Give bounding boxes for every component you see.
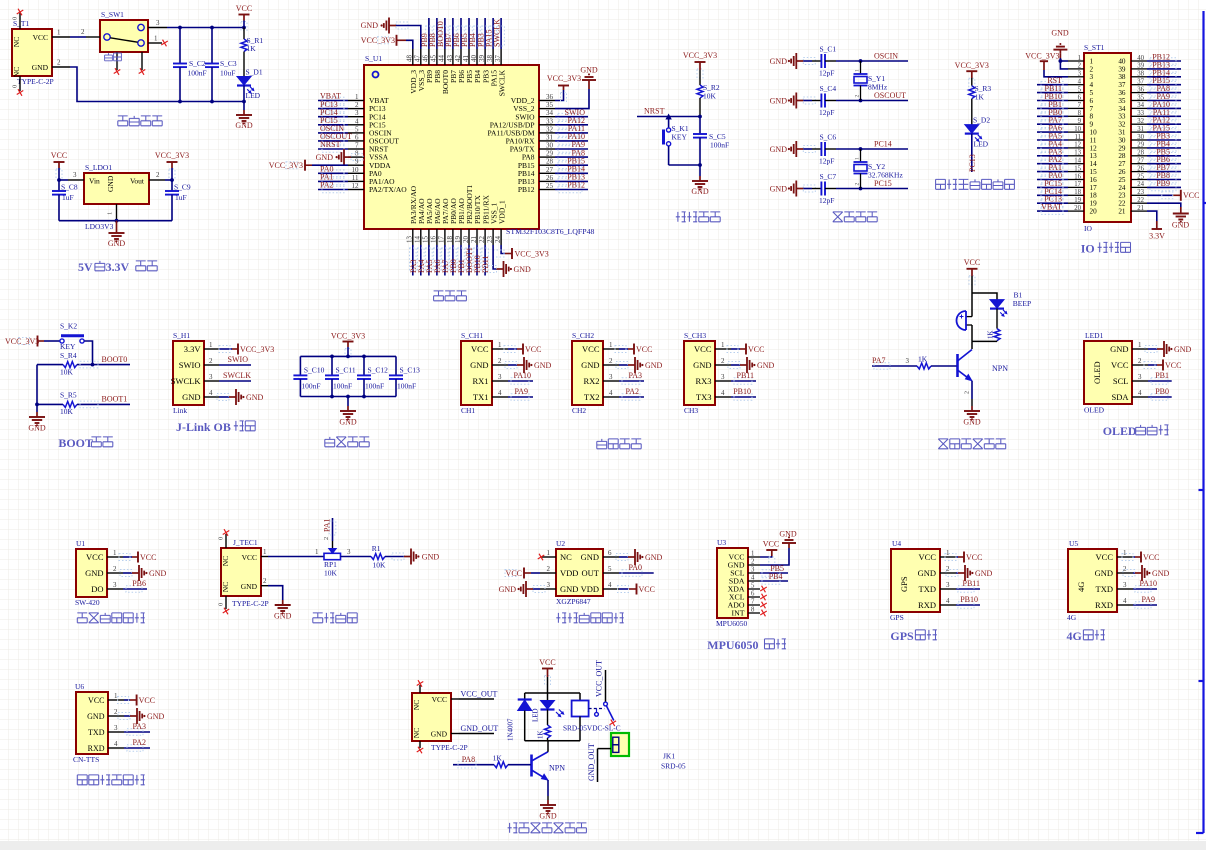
wire <box>1147 107 1181 109</box>
wire <box>972 293 997 300</box>
svg-text:10uF: 10uF <box>220 69 235 78</box>
svg-text:40: 40 <box>470 55 478 63</box>
ground at U1 pin2 <box>120 565 167 581</box>
ground <box>274 600 292 621</box>
svg-text:S_C12: S_C12 <box>368 366 389 375</box>
no-connect X J_TEC1 top <box>223 529 230 536</box>
svg-text:VCC: VCC <box>763 540 779 549</box>
svg-text:SWCLK: SWCLK <box>223 371 251 380</box>
svg-text:PC13: PC13 <box>968 154 977 172</box>
svg-text:10: 10 <box>352 166 360 174</box>
svg-text:25: 25 <box>546 182 554 190</box>
svg-text:25: 25 <box>1118 176 1126 184</box>
connector S_ST1 <box>1068 43 1147 233</box>
svg-text:20: 20 <box>1074 205 1081 212</box>
svg-text:27: 27 <box>1118 160 1126 168</box>
wire <box>1037 131 1068 133</box>
svg-text:1K: 1K <box>918 355 928 364</box>
wire <box>1037 210 1068 212</box>
wire <box>669 164 700 166</box>
svg-text:28: 28 <box>546 158 554 166</box>
connector S_CH1 <box>461 331 508 415</box>
svg-text:30: 30 <box>1118 136 1126 144</box>
svg-text:22: 22 <box>478 236 486 244</box>
no-connect X J_TEC1 bottom <box>223 608 230 615</box>
svg-text:32: 32 <box>1137 118 1144 125</box>
resistor S_R3 <box>969 78 992 125</box>
svg-text:2: 2 <box>113 565 117 573</box>
svg-text:TYPE-C-2P: TYPE-C-2P <box>431 743 468 752</box>
svg-text:15: 15 <box>1074 165 1081 172</box>
svg-text:21: 21 <box>470 236 478 244</box>
wire top rail <box>300 355 396 357</box>
capacitor S_C9 <box>165 180 191 221</box>
power port VCC_3V3 at S_ST1 pin3 <box>1025 52 1059 70</box>
svg-text:37: 37 <box>1137 79 1144 86</box>
svg-text:7: 7 <box>1078 102 1082 109</box>
wire <box>59 179 68 181</box>
svg-text:GND_OUT: GND_OUT <box>461 724 499 733</box>
svg-text:GND: GND <box>431 730 448 739</box>
wire <box>555 180 588 182</box>
svg-text:34: 34 <box>1137 102 1144 109</box>
wire <box>268 556 324 558</box>
no-connect X on S_T1 bottom pin <box>17 89 24 96</box>
svg-text:PA9: PA9 <box>1142 595 1156 604</box>
svg-text:11: 11 <box>1090 136 1097 144</box>
svg-text:5: 5 <box>1078 86 1082 93</box>
wire <box>1147 123 1181 125</box>
svg-text:VDD_1: VDD_1 <box>497 200 506 224</box>
svg-text:1K: 1K <box>987 330 995 339</box>
svg-text:S_D1: S_D1 <box>246 68 263 77</box>
crystal S_Y2 <box>854 149 904 189</box>
svg-text:J_TEC1: J_TEC1 <box>233 538 258 547</box>
svg-text:3: 3 <box>156 19 160 27</box>
wire <box>1147 179 1181 181</box>
svg-text:4: 4 <box>946 597 950 605</box>
svg-text:S_H1: S_H1 <box>173 331 190 340</box>
svg-text:VCC: VCC <box>432 695 447 704</box>
svg-text:31: 31 <box>1118 129 1126 137</box>
svg-text:S_C7: S_C7 <box>820 172 837 181</box>
svg-text:GND: GND <box>770 145 788 154</box>
svg-text:GND: GND <box>770 184 788 193</box>
svg-text:8MHz: 8MHz <box>868 83 888 92</box>
svg-text:35: 35 <box>546 101 554 109</box>
wire <box>1147 163 1181 165</box>
no-connect X relay connector top <box>417 680 424 687</box>
no-connect X on S_SW1 pin1 <box>161 40 168 47</box>
potentiometer RP1 <box>323 537 351 578</box>
svg-text:6: 6 <box>355 133 359 141</box>
wire <box>1133 588 1157 590</box>
svg-text:3: 3 <box>721 373 725 381</box>
svg-text:GND: GND <box>106 175 115 192</box>
svg-text:GND: GND <box>108 239 126 248</box>
svg-text:9: 9 <box>1090 121 1094 129</box>
svg-text:PB9: PB9 <box>1156 179 1170 188</box>
svg-text:GND: GND <box>770 96 788 105</box>
svg-text:2: 2 <box>323 537 330 540</box>
wire <box>1133 604 1157 606</box>
svg-text:VCC: VCC <box>582 344 600 354</box>
svg-text:2: 2 <box>751 559 755 566</box>
power port VCC_3V3 at U1 pin48 <box>361 35 413 49</box>
svg-text:OLED: OLED <box>1092 361 1102 384</box>
svg-text:PB12: PB12 <box>567 181 585 190</box>
svg-text:OLED: OLED <box>1103 424 1137 438</box>
power port VCC_3V3 at U1 pin24 <box>493 245 549 259</box>
wire <box>597 749 599 782</box>
wire top rail <box>525 692 580 694</box>
svg-text:S_C6: S_C6 <box>820 133 837 142</box>
svg-text:SWCLK: SWCLK <box>492 19 501 47</box>
ground at U5 pin2 <box>1123 565 1170 581</box>
svg-text:GND: GND <box>87 712 105 721</box>
power port VCC_3V3 <box>331 332 365 358</box>
svg-text:1: 1 <box>721 341 725 349</box>
wire <box>318 116 348 118</box>
svg-text:SRD-05: SRD-05 <box>661 762 686 771</box>
svg-text:26: 26 <box>546 174 554 182</box>
svg-text:1N4007: 1N4007 <box>507 718 515 741</box>
svg-text:VCC_3V3: VCC_3V3 <box>1025 52 1059 61</box>
svg-text:1: 1 <box>263 548 267 556</box>
ground at U1 pin47 <box>361 18 421 50</box>
ground <box>28 412 46 433</box>
svg-text:PB6: PB6 <box>132 579 146 588</box>
wire <box>803 100 812 102</box>
wire <box>36 365 38 412</box>
wire VCC to rail <box>243 21 245 28</box>
svg-text:PA7: PA7 <box>872 356 886 365</box>
svg-text:IO: IO <box>1081 242 1095 256</box>
svg-text:4: 4 <box>1138 389 1142 397</box>
wire <box>318 124 348 126</box>
resistor 1K of alarm <box>987 309 1001 342</box>
svg-text:2: 2 <box>498 357 502 365</box>
svg-text:3: 3 <box>498 373 502 381</box>
wire <box>1147 131 1181 133</box>
svg-text:VCC: VCC <box>966 553 982 562</box>
svg-text:PB11: PB11 <box>737 371 755 380</box>
wire <box>508 396 533 398</box>
svg-text:S_C10: S_C10 <box>304 366 325 375</box>
svg-text:TYPE-C-2P: TYPE-C-2P <box>17 77 54 86</box>
wire <box>124 747 150 749</box>
svg-text:GND_OUT: GND_OUT <box>587 743 596 781</box>
svg-text:3: 3 <box>113 581 117 589</box>
svg-text:8: 8 <box>751 607 755 614</box>
svg-text:1: 1 <box>355 93 359 101</box>
svg-text:1uF: 1uF <box>175 193 187 202</box>
svg-text:3: 3 <box>73 171 77 179</box>
svg-text:1: 1 <box>609 341 613 349</box>
svg-text:12pF: 12pF <box>819 69 834 78</box>
svg-text:U5: U5 <box>1069 539 1078 548</box>
svg-text:GND: GND <box>235 121 253 130</box>
wire <box>555 140 588 142</box>
svg-text:36: 36 <box>546 93 554 101</box>
wire <box>459 733 494 735</box>
junction <box>362 395 366 399</box>
svg-text:PA10: PA10 <box>514 371 532 380</box>
wire <box>444 18 446 49</box>
svg-text:19: 19 <box>1090 200 1098 208</box>
svg-text:CH3: CH3 <box>684 406 698 415</box>
power port 3.3V at S_ST1 pin21 <box>1147 211 1165 240</box>
svg-text:VCC: VCC <box>51 151 67 160</box>
svg-text:10K: 10K <box>60 407 74 416</box>
svg-text:S_CH2: S_CH2 <box>572 331 594 340</box>
svg-text:100nF: 100nF <box>397 382 416 391</box>
wire <box>1037 107 1068 109</box>
ground at S_CH2 pin2 <box>616 357 663 373</box>
power port VCC at U5 pin1 <box>1122 552 1159 563</box>
wire <box>1037 100 1068 102</box>
junction <box>362 355 366 359</box>
junction <box>178 26 182 30</box>
junction <box>210 100 214 104</box>
wire <box>219 364 251 366</box>
junction <box>35 403 39 407</box>
svg-text:VCC: VCC <box>236 4 252 13</box>
svg-text:2: 2 <box>156 171 160 179</box>
power port VCC_3V3 <box>683 51 717 78</box>
svg-text:GND: GND <box>514 265 532 274</box>
svg-text:GND: GND <box>85 568 103 578</box>
ground <box>108 221 126 248</box>
svg-text:5: 5 <box>355 125 359 133</box>
wire <box>318 140 348 142</box>
svg-text:GND: GND <box>779 530 797 539</box>
svg-text:S_C4: S_C4 <box>820 84 837 93</box>
wire <box>1037 194 1068 196</box>
ground at U1 pin23 <box>485 245 532 277</box>
svg-text:GND: GND <box>975 569 993 578</box>
junction <box>115 219 119 223</box>
svg-text:23: 23 <box>1137 189 1144 196</box>
LED S_D1 <box>237 68 263 102</box>
svg-text:VCC: VCC <box>1165 361 1181 370</box>
svg-text:24: 24 <box>1137 181 1144 188</box>
wire <box>484 18 486 49</box>
svg-text:LED: LED <box>532 708 540 722</box>
LED of relay <box>532 693 564 722</box>
no-connect X relay connector bottom <box>417 747 424 754</box>
svg-text:U3: U3 <box>717 538 726 547</box>
svg-text:RX2: RX2 <box>583 376 599 386</box>
svg-text:39: 39 <box>1137 63 1144 70</box>
power port VCC <box>51 151 67 178</box>
capacitor S_C11 <box>325 356 356 396</box>
wire <box>492 18 494 49</box>
wire ground rail <box>70 67 244 102</box>
wire <box>760 572 788 574</box>
wire <box>1037 139 1068 141</box>
svg-text:VCC: VCC <box>964 258 980 267</box>
svg-text:1: 1 <box>107 212 114 215</box>
caption 滤波电路 <box>325 437 335 447</box>
svg-text:39: 39 <box>478 55 486 63</box>
svg-text:GND: GND <box>539 812 557 821</box>
svg-text:S_R4: S_R4 <box>60 351 77 360</box>
module U1 SW-420 <box>75 539 123 607</box>
svg-text:RXD: RXD <box>1095 600 1113 610</box>
wire <box>318 108 348 110</box>
svg-text:VCC: VCC <box>1096 552 1114 562</box>
wire <box>1037 163 1068 165</box>
svg-text:20: 20 <box>462 236 470 244</box>
svg-text:3: 3 <box>906 357 910 365</box>
key switch S_K2 <box>60 322 84 351</box>
wire <box>468 245 470 276</box>
svg-text:BOOT0: BOOT0 <box>102 355 128 364</box>
caption 震动检测模块 <box>77 613 87 623</box>
svg-text:25: 25 <box>1137 173 1144 180</box>
svg-text:33: 33 <box>1118 113 1126 121</box>
svg-text:20: 20 <box>1090 208 1098 216</box>
svg-text:12: 12 <box>1074 142 1081 149</box>
module U6 CN-TTS <box>73 682 124 764</box>
svg-text:GND: GND <box>1095 568 1113 578</box>
junction <box>346 355 350 359</box>
svg-text:19: 19 <box>1074 197 1081 204</box>
wire <box>555 116 588 118</box>
svg-text:16: 16 <box>1074 173 1081 180</box>
svg-text:J-Link OB: J-Link OB <box>176 420 231 434</box>
svg-text:GND: GND <box>246 393 264 402</box>
svg-text:GND: GND <box>534 361 552 370</box>
svg-text:GND: GND <box>147 712 165 721</box>
wire <box>619 380 644 382</box>
svg-text:GND: GND <box>1172 221 1190 230</box>
no-connect X at relay contact <box>610 720 617 727</box>
svg-text:GND: GND <box>470 360 488 370</box>
wire <box>508 380 533 382</box>
wire ground rail <box>59 220 172 222</box>
svg-text:KEY: KEY <box>672 133 688 142</box>
svg-text:GND: GND <box>645 361 663 370</box>
wire <box>555 132 588 134</box>
connector S_T1 <box>12 13 71 91</box>
svg-text:4: 4 <box>1123 597 1127 605</box>
no-connect X on S_SW1 bottom pins <box>114 68 121 75</box>
svg-text:KEY: KEY <box>60 342 76 351</box>
svg-text:VDD: VDD <box>560 568 578 578</box>
ground at U1 pin35 <box>555 66 598 109</box>
svg-text:NC: NC <box>560 552 572 562</box>
svg-text:1: 1 <box>547 549 551 557</box>
svg-text:S_LDO1: S_LDO1 <box>85 163 112 172</box>
svg-text:100nF: 100nF <box>710 141 729 150</box>
svg-text:2: 2 <box>209 357 213 365</box>
wire <box>619 572 654 574</box>
svg-text:S_C2: S_C2 <box>189 59 206 68</box>
svg-text:6: 6 <box>751 591 755 598</box>
svg-text:VCC: VCC <box>694 344 712 354</box>
svg-text:VCC: VCC <box>506 569 522 578</box>
svg-text:4: 4 <box>1078 79 1082 86</box>
resistor S_R4 <box>37 351 130 377</box>
svg-text:30: 30 <box>1137 134 1144 141</box>
svg-text:1: 1 <box>855 69 861 72</box>
svg-text:3: 3 <box>1078 71 1082 78</box>
svg-text:45: 45 <box>430 55 438 63</box>
svg-text:GND: GND <box>963 418 981 427</box>
wire <box>619 396 644 398</box>
wire <box>58 168 60 180</box>
ground at S_H1 pin4 <box>217 389 264 405</box>
power port VCC at S_CH3 pin1 <box>727 344 764 355</box>
wire <box>836 188 908 190</box>
power port VCC at S_CH2 pin1 <box>615 344 652 355</box>
wire <box>428 245 430 276</box>
wire <box>1037 92 1068 94</box>
svg-text:TX1: TX1 <box>473 392 489 402</box>
svg-text:SCL: SCL <box>1113 376 1129 386</box>
caption 晶振电路 <box>833 212 843 222</box>
svg-text:21: 21 <box>1137 205 1144 212</box>
svg-text:XGZP6847: XGZP6847 <box>556 597 591 606</box>
wire <box>436 18 438 49</box>
svg-text:12: 12 <box>1090 144 1098 152</box>
svg-text:41: 41 <box>462 55 470 63</box>
svg-text:33: 33 <box>546 117 554 125</box>
svg-text:GND: GND <box>560 584 578 594</box>
svg-text:4: 4 <box>751 575 755 582</box>
svg-text:PC14: PC14 <box>874 140 892 149</box>
svg-text:LDO3V3: LDO3V3 <box>85 222 114 231</box>
svg-text:S_C9: S_C9 <box>174 183 191 192</box>
svg-text:0: 0 <box>218 603 225 606</box>
junction <box>178 100 182 104</box>
svg-text:5: 5 <box>1090 89 1094 97</box>
svg-text:3: 3 <box>609 373 613 381</box>
power port VCC_3V3 <box>155 151 189 178</box>
LED of alarm <box>990 291 1031 317</box>
junction <box>1059 59 1063 63</box>
svg-text:TX2: TX2 <box>584 392 600 402</box>
svg-text:GND: GND <box>422 553 440 562</box>
junction <box>859 187 863 191</box>
svg-text:LED1: LED1 <box>1085 331 1104 340</box>
ground at S_ST1 pins 1-2 <box>1051 29 1069 62</box>
svg-text:GND: GND <box>499 585 517 594</box>
wire <box>547 780 549 796</box>
svg-text:0: 0 <box>12 85 19 88</box>
svg-text:100nF: 100nF <box>188 69 207 78</box>
capacitor S_C6 <box>812 133 836 166</box>
junction <box>242 26 246 30</box>
power port VCC at LED1 pin2 <box>1144 360 1181 371</box>
svg-text:10K: 10K <box>60 368 74 377</box>
svg-text:VCC: VCC <box>639 585 655 594</box>
svg-text:8: 8 <box>1078 110 1082 117</box>
svg-text:SWIO: SWIO <box>228 355 249 364</box>
resistor S_R5 <box>37 391 130 417</box>
svg-text:16: 16 <box>1090 176 1098 184</box>
svg-text:26: 26 <box>1137 165 1144 172</box>
svg-text:17: 17 <box>1074 181 1081 188</box>
svg-text:1uF: 1uF <box>62 193 74 202</box>
relay coil SRD-05VDC-SL-C <box>563 693 621 741</box>
svg-text:42: 42 <box>454 55 462 63</box>
svg-text:3: 3 <box>1123 581 1127 589</box>
svg-text:VCC_3V3: VCC_3V3 <box>155 151 189 160</box>
svg-text:SWIO: SWIO <box>179 360 201 370</box>
